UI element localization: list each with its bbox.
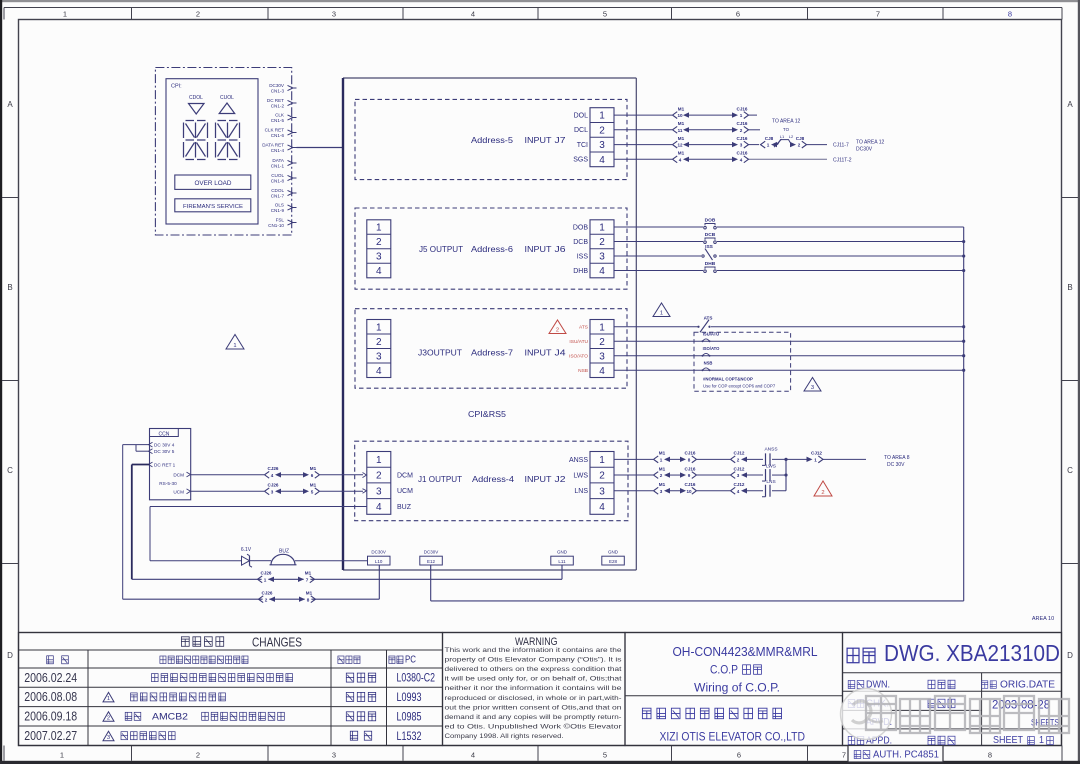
svg-text:CJ16: CJ16 — [737, 106, 748, 111]
svg-text:4: 4 — [679, 157, 682, 162]
svg-text:DC30V: DC30V — [856, 147, 873, 153]
svg-text:4: 4 — [471, 751, 475, 760]
wire DOB (J6-1) to right bus — [614, 226, 964, 228]
svg-text:CJ12: CJ12 — [734, 466, 745, 471]
pin CN1-8 CUOL — [271, 173, 297, 184]
svg-text:NSB: NSB — [704, 360, 713, 365]
switch ISU/ATU — [702, 331, 720, 342]
svg-text:ISS: ISS — [577, 253, 589, 260]
wire TCI (J7-3) — [614, 144, 759, 146]
wire L10 DC30V to CCN DC 30V — [123, 565, 380, 599]
watermark text — [866, 696, 1069, 733]
svg-text:CJ16: CJ16 — [685, 451, 696, 456]
svg-text:J1 OUTPUT: J1 OUTPUT — [418, 474, 462, 484]
svg-text:ATS: ATS — [579, 325, 588, 331]
svg-text:SGS: SGS — [573, 157, 588, 164]
limit switch LNS — [762, 479, 776, 497]
svg-text:L1: L1 — [780, 134, 785, 139]
svg-text:M1: M1 — [659, 482, 666, 487]
connector block J1 OUTPUT / J2 INPUT (Address-4) — [355, 441, 628, 521]
svg-text:2006.08.08: 2006.08.08 — [24, 690, 77, 704]
svg-text:XIZI OTIS ELEVATOR CO.,LTD: XIZI OTIS ELEVATOR CO.,LTD — [660, 732, 806, 744]
wire LNS (J2-3) — [614, 490, 786, 492]
svg-text:2: 2 — [821, 490, 824, 496]
svg-text:5: 5 — [603, 751, 607, 760]
terminal GND L11 — [551, 550, 574, 566]
svg-text:J7: J7 — [555, 135, 566, 145]
connector block J3 OUTPUT / J4 INPUT (Address-7) — [355, 309, 627, 389]
svg-text:2: 2 — [737, 457, 740, 462]
connector pair CJ16-8 on ANSS — [680, 451, 697, 463]
svg-text:CN1-5: CN1-5 — [271, 118, 285, 123]
svg-text:Use for COP except COP6 and CO: Use for COP except COP6 and COP7 — [703, 384, 776, 389]
svg-text:GND: GND — [608, 550, 619, 555]
wire ISU/ATU (J4-2) to right bus — [614, 340, 964, 342]
svg-text:CN1-10: CN1-10 — [268, 223, 284, 228]
push button DHB — [704, 261, 717, 273]
connector pair CJ16-10 on LNS — [680, 482, 697, 494]
svg-text:2: 2 — [376, 471, 382, 482]
svg-text:ISO/ATO: ISO/ATO — [569, 354, 588, 360]
net label TO AREA 8 DC 30V — [884, 455, 910, 468]
svg-text:#NORMAL COPT&NCOP: #NORMAL COPT&NCOP — [703, 377, 753, 382]
svg-text:1: 1 — [376, 322, 382, 333]
svg-text:ISU/ATU: ISU/ATU — [569, 339, 588, 345]
svg-text:CJ8: CJ8 — [796, 136, 805, 141]
wire E12 drop to bottom bus — [430, 565, 432, 601]
svg-text:L0993: L0993 — [397, 692, 422, 704]
svg-text:4: 4 — [740, 157, 743, 162]
svg-text:1: 1 — [740, 113, 743, 118]
svg-text:1: 1 — [376, 455, 382, 466]
svg-text:DHB: DHB — [573, 268, 588, 275]
svg-text:CJ12: CJ12 — [734, 451, 745, 456]
svg-text:L1532: L1532 — [397, 731, 422, 743]
svg-text:CN1-7: CN1-7 — [271, 193, 285, 198]
svg-text:5: 5 — [311, 489, 314, 494]
svg-text:M1: M1 — [678, 136, 685, 141]
svg-text:3: 3 — [599, 140, 605, 151]
svg-text:L0985: L0985 — [397, 711, 422, 723]
svg-text:CPI:: CPI: — [171, 84, 182, 90]
svg-text:4: 4 — [599, 266, 605, 277]
svg-text:DATA RET: DATA RET — [262, 142, 284, 147]
connector pair M1-3 on LNS — [654, 482, 671, 494]
svg-text:3: 3 — [271, 489, 274, 494]
svg-text:3: 3 — [737, 473, 740, 478]
svg-text:UCM: UCM — [397, 488, 413, 495]
connector pair CJ26-1 on GND return — [258, 571, 275, 583]
svg-text:8: 8 — [688, 457, 691, 462]
svg-text:2006.09.18: 2006.09.18 — [24, 710, 77, 724]
svg-text:1: 1 — [599, 322, 605, 333]
svg-text:TCI: TCI — [577, 142, 588, 149]
svg-text:CJ11T-2: CJ11T-2 — [833, 157, 852, 163]
connector pair M1-6 on DCM — [303, 466, 320, 478]
note triangle 1 — [653, 303, 670, 317]
svg-text:DCB: DCB — [705, 232, 716, 238]
connector pair CJ12-4 on LNS — [731, 482, 748, 494]
connector pair M1-2 on LWS — [654, 466, 671, 478]
svg-text:LWS: LWS — [573, 472, 588, 479]
wire ANSS (J2-1) — [614, 458, 786, 460]
push button DCB — [704, 232, 717, 244]
svg-text:DC 30V 4: DC 30V 4 — [154, 443, 175, 448]
CPI display unit U-CPI (dash-dot enclosure) — [155, 68, 291, 236]
indicator OVER LOAD — [175, 175, 251, 189]
svg-text:CJ16: CJ16 — [737, 151, 748, 156]
wire DOL (J7-1) — [614, 114, 757, 116]
svg-text:ed to Otis. Unpublished Wor: ed to Otis. Unpublished Work ©Otis Eleva… — [445, 722, 623, 730]
svg-text:2: 2 — [740, 128, 743, 133]
svg-text:Wiring of C.O.P.: Wiring of C.O.P. — [694, 683, 780, 695]
pin CN1-5 CLK — [271, 112, 297, 123]
connector pair CJ12-1 output — [807, 451, 824, 463]
svg-text:C.O.P: C.O.P — [710, 665, 738, 677]
svg-text:GND: GND — [557, 550, 568, 555]
svg-text:A: A — [1067, 100, 1073, 109]
wire DATA RET from CN1-4 to CPI&RS5 board — [297, 147, 344, 149]
svg-text:3: 3 — [740, 143, 743, 148]
wire BUZ from J1-4 — [150, 506, 367, 560]
svg-text:2007.02.27: 2007.02.27 — [24, 729, 77, 743]
connector pair CJ8-2 on TCI — [790, 136, 827, 148]
junction dot on bus — [962, 369, 965, 372]
key switch ISS — [702, 244, 716, 260]
svg-text:CJ11-7: CJ11-7 — [833, 143, 849, 149]
svg-text:DCM: DCM — [397, 472, 413, 479]
svg-text:M1: M1 — [310, 483, 317, 488]
svg-text:2: 2 — [196, 751, 200, 760]
junction dot LWS/bus — [784, 473, 787, 476]
svg-text:CN1-4: CN1-4 — [271, 148, 285, 153]
svg-text:DC 30V 5: DC 30V 5 — [154, 449, 175, 454]
svg-text:6: 6 — [311, 473, 314, 478]
connector pair CJ12-2 on ANSS — [731, 451, 748, 463]
svg-text:INPUT: INPUT — [525, 135, 552, 145]
svg-text:1: 1 — [60, 751, 64, 760]
svg-text:M1: M1 — [678, 106, 685, 111]
changes table header — [47, 636, 416, 666]
svg-text:11: 11 — [678, 128, 683, 133]
svg-text:L2: L2 — [789, 134, 794, 139]
wire DCM from CCN to J1-2 — [191, 473, 367, 478]
note box: switches used for COP except COP6 and COP7 — [694, 332, 791, 391]
auth row PC4851 — [848, 746, 943, 763]
svg-text:7: 7 — [306, 577, 309, 582]
svg-text:3: 3 — [376, 252, 382, 263]
svg-text:ATS: ATS — [704, 316, 713, 321]
pin DC RET 1 — [149, 462, 176, 467]
junction dot on bus — [962, 340, 965, 343]
connector pair M1-12 on TCI — [673, 136, 690, 148]
change record 2006.02.24 — [24, 671, 435, 685]
svg-text:ORIG.DATE: ORIG.DATE — [1000, 680, 1055, 691]
svg-text:CJ8: CJ8 — [765, 136, 774, 141]
zener diode 6.1V — [241, 547, 255, 567]
svg-text:DHB: DHB — [705, 261, 716, 267]
svg-text:1: 1 — [599, 223, 605, 234]
svg-text:M1: M1 — [678, 151, 685, 156]
svg-text:2: 2 — [599, 471, 605, 482]
wire DCL (J7-2) — [614, 129, 760, 131]
svg-text:8: 8 — [1008, 10, 1012, 19]
connector pair M1-1 on ANSS — [654, 451, 671, 463]
wire ATS (J4-1) to right bus — [614, 326, 964, 328]
svg-text:M1: M1 — [678, 121, 685, 126]
title block drawing name — [625, 633, 843, 746]
pin DC 30V 5 — [149, 449, 175, 454]
svg-text:3: 3 — [332, 10, 336, 19]
svg-text:AUTH. PC4851: AUTH. PC4851 — [873, 749, 939, 761]
svg-text:CN1-2: CN1-2 — [271, 103, 285, 108]
svg-text:7: 7 — [842, 751, 846, 760]
connector block J5 OUTPUT / J6 INPUT (Address-6) — [355, 208, 627, 289]
svg-text:2: 2 — [660, 473, 663, 478]
watermark logo circle — [841, 689, 892, 740]
connector J7 pin box pins 1-4 — [590, 108, 614, 167]
change record 2006.08.08 — [24, 690, 421, 704]
connector block J7 (Address-5 INPUT) — [355, 99, 627, 179]
bus wire DC30V right side (from DOB row down to E12) — [431, 227, 964, 601]
switch NSB — [702, 360, 713, 371]
svg-text:1: 1 — [233, 343, 236, 349]
svg-text:INPUT: INPUT — [525, 244, 552, 254]
svg-text:5: 5 — [603, 10, 607, 19]
svg-text:CCN: CCN — [158, 431, 169, 437]
wire to CJ12-1 TO AREA 8 — [786, 458, 866, 460]
pin CN1-9 OLS — [271, 202, 297, 213]
wire DCB (J6-2) to right bus — [614, 241, 964, 243]
wire L11 GND return to CCN DC RET — [132, 565, 562, 579]
connector pair CJ16-4 on SGS — [732, 151, 749, 163]
svg-text:DC RET 1: DC RET 1 — [154, 462, 176, 467]
svg-text:CJ12: CJ12 — [734, 482, 745, 487]
svg-text:CJ16: CJ16 — [685, 482, 696, 487]
pin CN1-3 DC30V — [269, 83, 296, 94]
svg-text:M1: M1 — [659, 466, 666, 471]
svg-text:DOB: DOB — [705, 217, 716, 223]
link TO L1 L2 (door lock contact) — [774, 127, 794, 147]
svg-text:4: 4 — [737, 489, 740, 494]
connector pair CJ16-3 on TCI — [732, 136, 749, 148]
svg-text:This work and the information: This work and the information it contain… — [445, 647, 622, 654]
svg-text:Address-7: Address-7 — [471, 348, 513, 358]
svg-text:RS-5-30: RS-5-30 — [159, 481, 177, 486]
svg-text:M1: M1 — [659, 451, 666, 456]
svg-text:DOL: DOL — [574, 113, 589, 120]
svg-text:J4: J4 — [555, 348, 566, 358]
svg-text:DCB: DCB — [573, 239, 588, 246]
svg-text:4: 4 — [376, 502, 382, 513]
svg-text:out the prior written consent: out the prior written consent of Otis,an… — [445, 704, 622, 711]
svg-text:LNS: LNS — [574, 488, 588, 495]
svg-text:L10: L10 — [375, 559, 383, 564]
note triangle 1 (left area) — [226, 335, 244, 350]
svg-text:4: 4 — [376, 266, 382, 277]
svg-text:6: 6 — [737, 751, 741, 760]
svg-text:B: B — [1067, 283, 1072, 292]
svg-text:1: 1 — [63, 10, 67, 19]
connector J4 pin box pins 1-4 — [590, 320, 614, 378]
svg-text:DC 30V: DC 30V — [887, 462, 905, 468]
limit switch LWS — [762, 464, 776, 482]
svg-text:CLK RET: CLK RET — [265, 127, 285, 132]
svg-text:Address-4: Address-4 — [472, 474, 514, 484]
svg-text:TO: TO — [783, 127, 790, 132]
bus wire joining ANSS/LWS/LNS — [785, 459, 787, 490]
pin CN1-10 FSL — [268, 217, 296, 228]
svg-text:10: 10 — [686, 489, 692, 494]
svg-text:3: 3 — [376, 351, 382, 362]
svg-text:2: 2 — [798, 143, 801, 148]
wire DHB (J6-4) to right bus — [614, 270, 964, 272]
svg-text:INPUT: INPUT — [525, 348, 552, 358]
svg-text:DCL: DCL — [574, 127, 588, 134]
wire LWS (J2-2) — [614, 474, 786, 476]
svg-text:1: 1 — [660, 457, 663, 462]
svg-text:2: 2 — [265, 597, 268, 602]
svg-text:CJ12: CJ12 — [811, 451, 822, 456]
svg-text:4: 4 — [271, 473, 274, 478]
svg-text:LNS: LNS — [766, 479, 775, 485]
svg-text:CPI&RS5: CPI&RS5 — [468, 410, 507, 419]
svg-text:1: 1 — [814, 457, 817, 462]
svg-text:CDOL: CDOL — [189, 95, 203, 101]
svg-text:3: 3 — [599, 252, 605, 263]
title block number and approvals — [843, 633, 1062, 747]
svg-text:2: 2 — [599, 237, 605, 248]
svg-text:C: C — [1067, 466, 1073, 475]
switch ISO/ATO — [702, 346, 721, 357]
pin CN1-6 CLK RET — [265, 127, 297, 138]
svg-text:M1: M1 — [306, 590, 313, 595]
wire ISO/ATO (J4-3) to right bus — [614, 355, 964, 357]
connector pair M1-7 on GND return — [298, 571, 315, 583]
svg-text:3: 3 — [660, 489, 663, 494]
svg-text:2: 2 — [196, 10, 200, 19]
svg-text:E28: E28 — [609, 559, 618, 564]
pin UCM — [173, 489, 190, 494]
connector J3 pin box pins 1-4 — [367, 320, 391, 378]
svg-text:CJ16: CJ16 — [737, 136, 748, 141]
wire DC 30V 4/5 tie — [123, 445, 150, 600]
svg-text:6: 6 — [736, 10, 740, 19]
svg-text:J5 OUTPUT: J5 OUTPUT — [419, 244, 463, 254]
svg-text:8: 8 — [988, 751, 992, 760]
junction dot on bus — [962, 254, 965, 257]
svg-text:3: 3 — [332, 751, 336, 760]
junction dot on bus — [962, 269, 965, 272]
svg-text:OH-CON4423&MMR&MRL: OH-CON4423&MMR&MRL — [673, 645, 818, 659]
svg-text:4: 4 — [376, 366, 382, 377]
svg-text:TO AREA 12: TO AREA 12 — [856, 140, 884, 146]
svg-text:CUOL: CUOL — [220, 95, 234, 101]
connector pair M1-10 on DOL — [673, 106, 690, 118]
connector pair M1-8 on DC30V wire — [299, 590, 316, 602]
svg-text:CUOL: CUOL — [271, 173, 284, 178]
svg-text:PC: PC — [405, 654, 416, 665]
svg-text:OLS: OLS — [275, 202, 284, 207]
svg-text:DC30V: DC30V — [424, 550, 439, 555]
svg-text:4: 4 — [471, 10, 475, 19]
svg-text:1: 1 — [376, 223, 382, 234]
svg-text:LWS: LWS — [766, 464, 776, 470]
svg-text:B: B — [7, 283, 12, 292]
svg-text:reproduced or disclosed, in wh: reproduced or disclosed, in whole or in … — [445, 695, 622, 702]
svg-text:1: 1 — [599, 455, 605, 466]
svg-text:D: D — [7, 651, 13, 660]
svg-text:4: 4 — [599, 366, 605, 377]
svg-text:neither it nor the information: neither it nor the information it contai… — [445, 685, 622, 692]
svg-text:4: 4 — [599, 155, 605, 166]
svg-text:3: 3 — [811, 385, 814, 391]
pin CN1-2 DC RET — [267, 98, 297, 109]
svg-text:CDOL: CDOL — [271, 188, 284, 193]
svg-text:8: 8 — [307, 597, 310, 602]
svg-text:property of Otis Elevator Com: property of Otis Elevator Company (“Otis… — [445, 657, 623, 664]
changes table — [19, 633, 1062, 746]
svg-text:L11: L11 — [558, 559, 566, 564]
wire ISS (J6-3) to right bus — [614, 255, 964, 257]
limit switch ANSS — [762, 447, 778, 466]
connector J6 pin box pins 1-4 — [590, 220, 614, 278]
svg-text:3: 3 — [376, 486, 382, 497]
switch ATS — [697, 316, 712, 333]
connector pair CJ12-3 on LWS — [731, 466, 748, 478]
terminal GND E28 — [602, 550, 625, 566]
revision triangle 2 (red) at J4 — [549, 320, 566, 334]
pin CN1-4 DATA RET — [262, 142, 296, 153]
svg-text:DOB: DOB — [573, 224, 589, 231]
svg-text:4: 4 — [599, 502, 605, 513]
svg-text:ANSS: ANSS — [569, 457, 588, 464]
wire NSB (J4-4) to right bus — [614, 369, 964, 371]
svg-text:BUZ: BUZ — [397, 504, 412, 511]
revision triangle 2 (red) at J2 wires — [814, 481, 832, 496]
svg-text:CJ26: CJ26 — [268, 466, 279, 471]
svg-text:DC RET: DC RET — [267, 98, 284, 103]
connector J1 pin box pins 1-4 — [367, 452, 391, 515]
svg-text:M1: M1 — [305, 571, 312, 576]
connector J2 pin box pins 1-4 — [590, 452, 614, 515]
svg-text:A: A — [7, 100, 13, 109]
svg-text:CJ26: CJ26 — [268, 483, 279, 488]
connector J5 pin box pins 1-4 — [367, 220, 391, 278]
svg-text:1: 1 — [599, 111, 605, 122]
svg-text:2: 2 — [376, 237, 382, 248]
junction dot on bus — [962, 325, 965, 328]
connector pair CJ16-2 on DCL — [732, 121, 749, 133]
svg-text:3: 3 — [599, 486, 605, 497]
svg-text:CN1-3: CN1-3 — [271, 88, 285, 93]
7/14-segment display digit 2 — [216, 121, 240, 160]
indicator CDOL (down arrow) — [189, 95, 205, 114]
svg-text:L0380-C2: L0380-C2 — [397, 673, 436, 685]
junction dot ANSS/bus — [784, 458, 787, 461]
svg-text:NSB: NSB — [578, 368, 588, 374]
change record 2006.09.18 — [24, 710, 421, 724]
indicator FIREMAN'S SERVICE — [175, 199, 251, 212]
svg-text:ANSS: ANSS — [764, 447, 777, 453]
net label TO AREA 12 DC30V — [856, 140, 884, 153]
svg-text:OVER LOAD: OVER LOAD — [195, 180, 233, 187]
svg-text:3: 3 — [599, 351, 605, 362]
svg-text:DATA: DATA — [272, 158, 285, 163]
note triangle 3 — [804, 378, 821, 392]
svg-text:3: 3 — [107, 735, 110, 741]
terminal DC30V L10 — [368, 550, 391, 566]
